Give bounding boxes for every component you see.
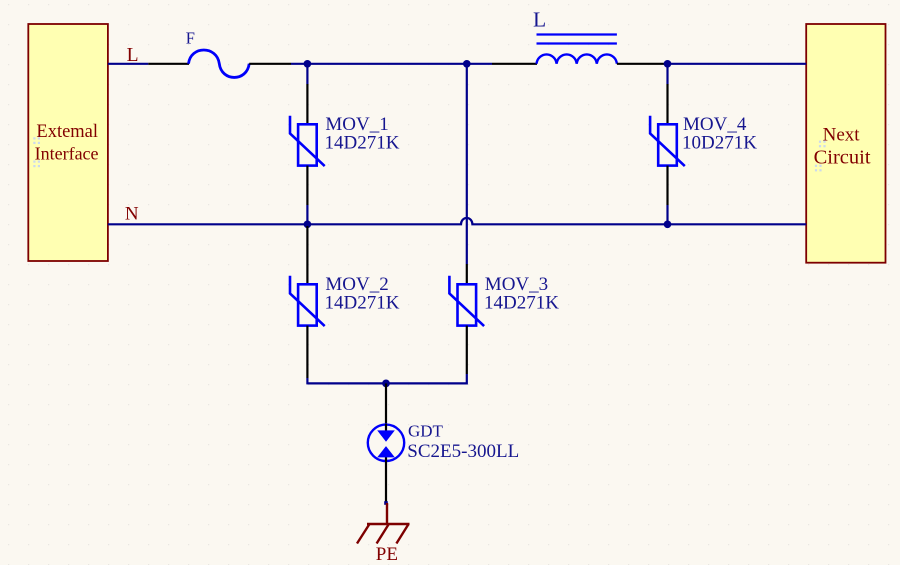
svg-text:14D271K: 14D271K (484, 293, 559, 314)
varistor MOV_3 pin 2 (466, 326, 468, 374)
wire L: node C to Next Circuit (668, 63, 807, 65)
GDT pin 1 (385, 383, 387, 424)
varistor MOV_1 (290, 116, 325, 166)
svg-text:14D271K: 14D271K (325, 293, 400, 314)
wire: node A down (306, 64, 308, 84)
ground PE (357, 503, 410, 544)
svg-text:Interface: Interface (35, 144, 99, 164)
varistor MOV_1 pin 2 (306, 166, 308, 205)
fuse F (189, 50, 250, 77)
wire: MOV_2 to bottom bus (306, 378, 308, 384)
svg-text:GDT: GDT (408, 421, 444, 440)
junction node C (664, 60, 672, 68)
svg-text:10D271K: 10D271K (682, 133, 757, 154)
svg-text:F: F (186, 29, 195, 48)
fuse F pin 1 (148, 63, 189, 65)
wire L: interface to fuse (108, 63, 148, 65)
junction node A (304, 60, 312, 68)
wire L: fuse to node A (291, 63, 307, 65)
wire: MOV_3 to bottom bus (307, 374, 466, 383)
varistor MOV_4 pin 2 (666, 166, 668, 205)
junction node D (304, 220, 312, 228)
varistor MOV_3 pin 1 (466, 264, 468, 284)
wire: MOV_4 to node E (666, 205, 668, 224)
svg-text:Next: Next (823, 125, 861, 146)
wire: node C down (666, 64, 668, 84)
gas discharge tube GDT (368, 424, 404, 461)
varistor MOV_2 pin 1 (306, 226, 308, 284)
pin end dot (384, 501, 388, 505)
svg-text:N: N (125, 203, 139, 224)
GDT pin 2 (385, 461, 387, 503)
block External Interface (28, 24, 108, 261)
varistor MOV_4 pin 1 (666, 84, 668, 124)
varistor MOV_3 (449, 276, 484, 326)
varistor MOV_1 pin 1 (306, 84, 308, 124)
inductor L pin 2 (617, 63, 668, 65)
wire N: node D to node E with hop over MOV_3 branch (307, 218, 667, 224)
wire: MOV_1 to node D (306, 205, 308, 224)
svg-text:PE: PE (376, 544, 398, 565)
inductor L pin 1 (492, 63, 537, 65)
svg-text:Extemal: Extemal (36, 122, 98, 142)
varistor MOV_2 pin 2 (306, 326, 308, 378)
svg-text:14D271K: 14D271K (325, 133, 400, 154)
wire N: interface to node D (108, 223, 308, 225)
svg-text:SC2E5-300LL: SC2E5-300LL (407, 441, 519, 462)
junction node F (GDT tap) (382, 380, 390, 388)
wire L: node B to inductor (467, 63, 492, 65)
wire N: node E to Next Circuit (668, 223, 807, 225)
fuse F pin 2 (249, 63, 291, 65)
varistor MOV_4 (650, 116, 685, 166)
inductor L (537, 35, 617, 64)
junction node B (463, 60, 471, 68)
junction node E (664, 220, 672, 228)
varistor MOV_2 (290, 276, 325, 326)
wire L: node A to node B (307, 63, 466, 65)
svg-text:L: L (533, 7, 546, 31)
wire: node B down to MOV_3 (466, 64, 468, 264)
block Next Circuit (806, 24, 885, 263)
svg-text:Circuit: Circuit (814, 147, 871, 169)
